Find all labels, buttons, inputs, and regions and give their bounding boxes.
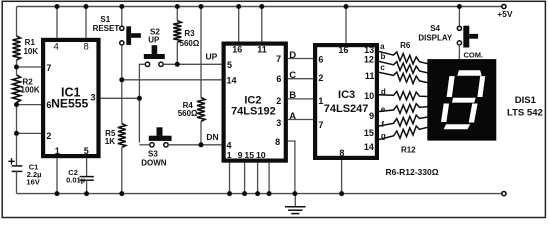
svg-text:COM.: COM. — [464, 50, 484, 59]
svg-text:UP: UP — [205, 51, 217, 61]
svg-text:8: 8 — [84, 41, 89, 52]
svg-text:1: 1 — [318, 96, 323, 106]
svg-text:R1: R1 — [25, 38, 36, 47]
svg-text:10K: 10K — [23, 47, 38, 56]
svg-text:5: 5 — [227, 60, 232, 70]
svg-text:g: g — [381, 131, 386, 140]
svg-text:5: 5 — [84, 146, 89, 156]
svg-text:7: 7 — [318, 120, 323, 130]
svg-text:a: a — [380, 42, 385, 51]
svg-text:DN: DN — [206, 132, 218, 142]
svg-text:74LS247: 74LS247 — [324, 103, 369, 115]
svg-text:13: 13 — [364, 45, 374, 55]
svg-text:3: 3 — [90, 92, 95, 102]
svg-text:S4: S4 — [430, 24, 440, 33]
svg-text:7: 7 — [276, 54, 281, 64]
svg-text:S1: S1 — [100, 15, 110, 24]
svg-text:15: 15 — [364, 128, 374, 138]
svg-text:3: 3 — [276, 118, 281, 128]
svg-text:LTS 542: LTS 542 — [507, 108, 543, 119]
svg-text:1: 1 — [55, 146, 60, 156]
svg-text:NE555: NE555 — [51, 96, 88, 110]
svg-text:16: 16 — [232, 44, 242, 54]
svg-text:R6-R12-330Ω: R6-R12-330Ω — [385, 167, 438, 177]
svg-text:16V: 16V — [26, 178, 39, 187]
svg-text:R3: R3 — [184, 29, 195, 38]
svg-text:15: 15 — [244, 150, 254, 160]
svg-text:74LS192: 74LS192 — [231, 105, 276, 117]
svg-text:560Ω: 560Ω — [178, 109, 198, 118]
svg-text:9: 9 — [369, 111, 374, 121]
svg-text:B: B — [289, 90, 296, 101]
svg-text:6: 6 — [46, 100, 51, 110]
svg-text:S3: S3 — [148, 150, 158, 159]
svg-text:14: 14 — [227, 76, 237, 86]
svg-text:8: 8 — [275, 137, 280, 147]
svg-text:10: 10 — [364, 91, 374, 101]
svg-text:100K: 100K — [21, 86, 40, 95]
svg-text:DISPLAY: DISPLAY — [418, 33, 453, 42]
svg-text:2: 2 — [318, 73, 323, 83]
svg-text:0.01µ: 0.01µ — [66, 175, 85, 184]
svg-text:16: 16 — [338, 45, 348, 55]
svg-text:12: 12 — [364, 55, 374, 65]
svg-text:f: f — [381, 120, 384, 129]
svg-text:6: 6 — [276, 74, 281, 84]
svg-text:11: 11 — [257, 44, 267, 54]
svg-text:DOWN: DOWN — [141, 159, 167, 168]
svg-text:7: 7 — [46, 63, 51, 73]
svg-text:1: 1 — [227, 150, 232, 160]
svg-text:b: b — [381, 52, 386, 61]
svg-text:6: 6 — [318, 54, 323, 64]
svg-text:D: D — [289, 50, 296, 61]
svg-text:RESET: RESET — [93, 24, 120, 33]
svg-text:R12: R12 — [401, 146, 416, 155]
svg-text:UP: UP — [148, 35, 160, 44]
svg-text:2: 2 — [46, 131, 51, 141]
svg-text:10: 10 — [256, 150, 266, 160]
svg-text:9: 9 — [238, 150, 243, 160]
svg-text:+5V: +5V — [497, 9, 513, 19]
svg-text:c: c — [380, 63, 385, 72]
svg-text:1K: 1K — [105, 137, 115, 146]
svg-text:2: 2 — [276, 96, 281, 106]
svg-text:11: 11 — [365, 71, 375, 81]
svg-text:14: 14 — [364, 142, 374, 152]
svg-text:d: d — [381, 88, 386, 97]
svg-text:e: e — [381, 105, 386, 114]
svg-text:IC3: IC3 — [338, 89, 355, 101]
svg-text:A: A — [289, 111, 296, 122]
svg-text:560Ω: 560Ω — [180, 39, 200, 48]
svg-text:DIS1: DIS1 — [515, 95, 537, 106]
svg-text:C: C — [289, 70, 296, 81]
svg-text:8: 8 — [339, 148, 344, 158]
svg-text:R6: R6 — [400, 41, 411, 50]
svg-text:4: 4 — [54, 41, 59, 52]
